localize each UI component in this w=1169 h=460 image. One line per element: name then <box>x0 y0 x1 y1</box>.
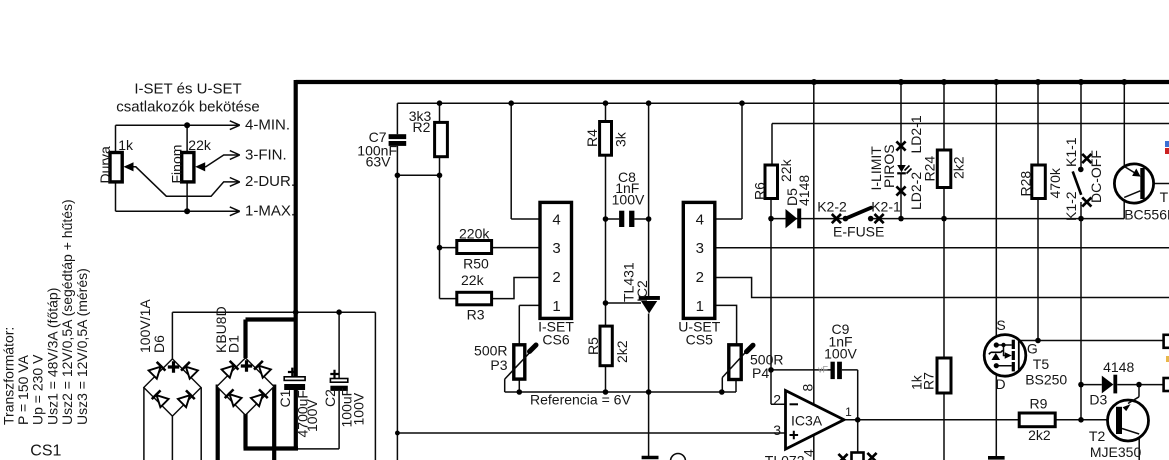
svg-text:4: 4 <box>696 211 704 228</box>
svg-text:3: 3 <box>552 240 560 257</box>
svg-text:3: 3 <box>773 422 781 438</box>
svg-text:8: 8 <box>800 384 816 392</box>
svg-text:22k: 22k <box>461 272 485 288</box>
svg-text:IC2: IC2 <box>634 280 650 302</box>
svg-text:1: 1 <box>696 298 704 315</box>
svg-text:csatlakozók bekötése: csatlakozók bekötése <box>116 99 259 116</box>
svg-text:PIROS: PIROS <box>881 144 897 188</box>
svg-text:Up = 230 V: Up = 230 V <box>30 354 46 425</box>
svg-text:K2-2: K2-2 <box>817 199 847 215</box>
svg-text:Finom: Finom <box>169 145 185 184</box>
svg-text:I-SET és U-SET: I-SET és U-SET <box>134 81 241 98</box>
svg-text:C1: C1 <box>277 389 293 407</box>
svg-text:MJE350: MJE350 <box>1090 444 1142 460</box>
svg-text:1k: 1k <box>118 137 134 153</box>
svg-text:100V: 100V <box>304 399 320 432</box>
svg-text:DC-OFF: DC-OFF <box>1088 150 1104 203</box>
svg-text:D3: D3 <box>1089 392 1107 408</box>
svg-text:22k: 22k <box>188 137 212 153</box>
svg-text:CS6: CS6 <box>542 332 569 348</box>
svg-text:P4: P4 <box>752 365 769 381</box>
svg-text:R28: R28 <box>1018 171 1034 197</box>
svg-text:R4: R4 <box>584 129 600 147</box>
svg-text:2: 2 <box>773 391 781 407</box>
svg-text:R3: R3 <box>467 307 485 323</box>
svg-text:T5: T5 <box>1033 356 1050 372</box>
svg-text:E-FUSE: E-FUSE <box>833 224 884 240</box>
svg-text:1: 1 <box>552 298 560 315</box>
svg-text:220k: 220k <box>459 226 490 242</box>
svg-text:Referencia = 6V: Referencia = 6V <box>530 392 631 408</box>
svg-text:C2: C2 <box>322 389 338 407</box>
svg-text:D6: D6 <box>151 335 167 353</box>
svg-text:IC3A: IC3A <box>791 413 823 429</box>
svg-text:S: S <box>996 317 1005 333</box>
svg-text:R7: R7 <box>921 372 937 390</box>
svg-text:BC556B: BC556B <box>1124 207 1169 223</box>
svg-text:LD2-1: LD2-1 <box>908 115 924 153</box>
svg-text:Durva: Durva <box>97 146 113 184</box>
svg-text:3-FIN.: 3-FIN. <box>245 146 287 163</box>
svg-text:3: 3 <box>696 240 704 257</box>
svg-text:G: G <box>1027 341 1038 357</box>
svg-text:CS1: CS1 <box>30 443 61 460</box>
svg-text:R2: R2 <box>413 119 431 135</box>
svg-text:R5: R5 <box>585 337 601 355</box>
svg-text:3k: 3k <box>613 131 629 147</box>
svg-text:470k: 470k <box>1047 167 1063 198</box>
svg-text:2: 2 <box>696 269 704 286</box>
svg-text:4148: 4148 <box>796 175 812 206</box>
svg-text:2k2: 2k2 <box>614 340 630 363</box>
svg-text:Usz3 = 12V/0,5A (mérés): Usz3 = 12V/0,5A (mérés) <box>74 268 90 425</box>
svg-text:100V: 100V <box>351 392 367 425</box>
svg-text:D1: D1 <box>226 335 242 353</box>
svg-text:R6: R6 <box>752 182 768 200</box>
svg-text:4148: 4148 <box>1103 359 1134 375</box>
svg-text:K1-1: K1-1 <box>1063 137 1079 167</box>
svg-text:2-DUR.: 2-DUR. <box>245 173 295 190</box>
svg-text:63V: 63V <box>366 154 392 170</box>
svg-text:Usz2 = 12V/0,5A (segédtáp + hű: Usz2 = 12V/0,5A (segédtáp + hűtés) <box>59 199 75 425</box>
svg-text:2k2: 2k2 <box>1028 427 1051 443</box>
svg-text:vF: vF <box>818 365 829 375</box>
svg-text:K2-1: K2-1 <box>871 199 901 215</box>
svg-text:2k2: 2k2 <box>951 156 967 179</box>
svg-text:100V: 100V <box>612 192 645 208</box>
svg-text:D: D <box>995 376 1005 392</box>
svg-text:T2: T2 <box>1089 428 1106 444</box>
svg-text:BS250: BS250 <box>1025 371 1067 387</box>
svg-text:R24: R24 <box>922 156 938 182</box>
svg-text:4: 4 <box>552 211 560 228</box>
svg-text:100V: 100V <box>824 346 857 362</box>
svg-text:R50: R50 <box>463 256 489 272</box>
svg-text:4-MIN.: 4-MIN. <box>245 117 290 134</box>
svg-text:2: 2 <box>552 269 560 286</box>
svg-text:1: 1 <box>845 405 852 419</box>
svg-text:CS5: CS5 <box>686 332 713 348</box>
svg-text:4: 4 <box>801 449 817 457</box>
svg-text:P3: P3 <box>490 357 507 373</box>
svg-text:T1: T1 <box>1160 189 1169 205</box>
svg-text:R9: R9 <box>1030 396 1048 412</box>
svg-text:TL072: TL072 <box>765 453 805 460</box>
svg-text:22k: 22k <box>778 158 794 182</box>
svg-text:K1-2: K1-2 <box>1063 191 1079 221</box>
svg-text:1-MAX.: 1-MAX. <box>245 203 295 220</box>
